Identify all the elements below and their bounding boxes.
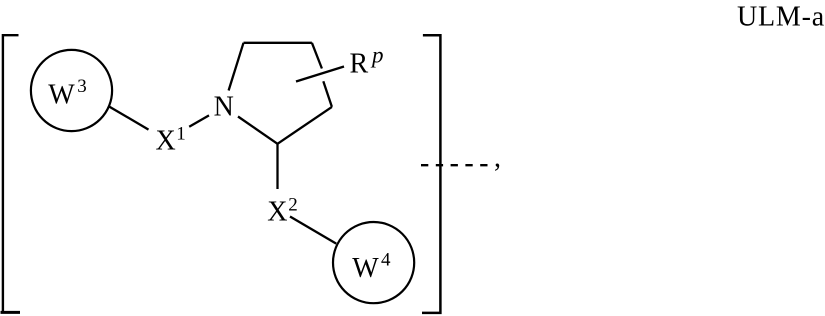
wire: bond X2 to W4 [290,217,336,244]
svg-text:W: W [352,253,379,284]
svg-text:R: R [350,49,369,80]
wire: bond bottom vertex to X2 [276,144,278,189]
svg-text:X: X [267,197,287,228]
svg-text:N: N [214,91,234,122]
svg-text:W: W [48,79,75,110]
wire: bond W3 to X1 [110,107,149,130]
wire: ring right bond upper segment [312,43,322,69]
svg-text:ULM-a: ULM-a [737,1,825,32]
wire: ring bond N to top-left vertex [229,43,244,91]
svg-text:X: X [156,126,176,157]
svg-text:4: 4 [381,249,391,270]
wire: dashed attachment bond [421,164,489,166]
left bracket [1,35,21,312]
wire: bond X1 to N [189,115,209,126]
circle W4 [333,222,414,303]
svg-text:3: 3 [77,76,87,97]
right bracket [422,35,440,313]
svg-text:1: 1 [176,124,186,145]
svg-text:,: , [494,143,501,174]
wire: ring top bond [244,42,312,44]
wire: ring bond right vertex to bottom vertex [278,107,332,144]
circle W3 [31,50,112,131]
svg-text:2: 2 [288,194,298,215]
wire: ring right bond lower segment [323,81,332,107]
wire: ring bond bottom vertex to N [238,117,278,144]
wire: floating bond to Rp [296,67,344,82]
svg-text:p: p [370,43,384,68]
